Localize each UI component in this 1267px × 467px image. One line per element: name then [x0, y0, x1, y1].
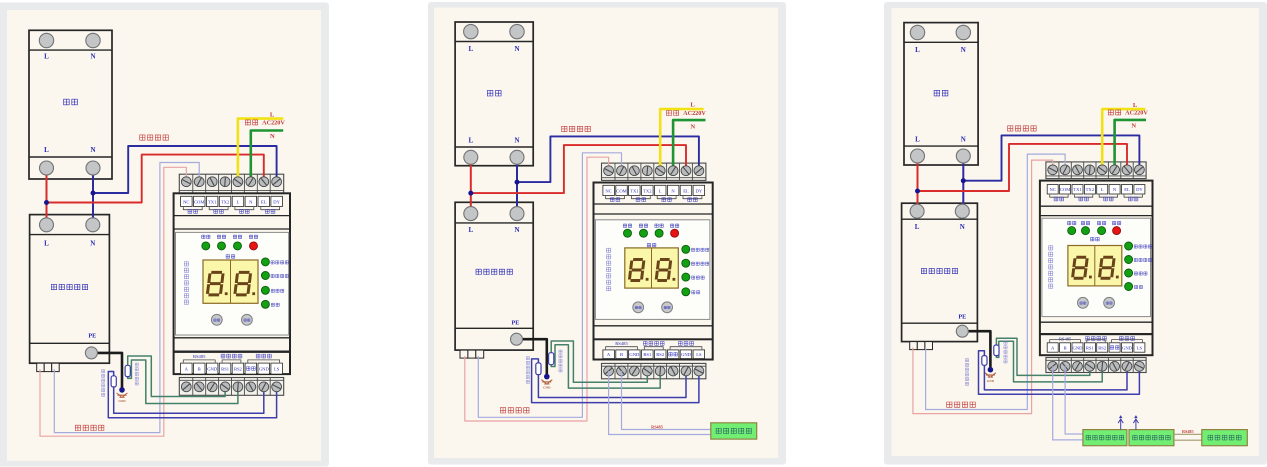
- P3 breaker label 空开: [934, 90, 948, 96]
- P1 strike counter wire to JS2 screw: [128, 360, 238, 404]
- P3 junction dot on L wire: [915, 189, 920, 194]
- svg-text:N: N: [514, 45, 519, 53]
- svg-text:EL: EL: [683, 188, 689, 193]
- svg-text:L: L: [468, 226, 473, 234]
- P2 breaker-monitor wire blue 空开监测: [517, 136, 699, 182]
- svg-text:RS485: RS485: [1182, 429, 1194, 434]
- svg-text:B: B: [1064, 345, 1067, 350]
- P3 right LEDs with labels 雷击次数 雷电流KA 极性一 温度: [1125, 242, 1133, 250]
- svg-text:B: B: [620, 352, 623, 357]
- P1 monitor bottom pin labels A B GND JS1 JS2 屏蔽 GND LS: [181, 363, 193, 374]
- P2 surge label 浪涌保护器: [476, 269, 512, 274]
- svg-text:L: L: [270, 111, 275, 118]
- P3 label 通信监测: [947, 402, 976, 407]
- P2 surge mounting feet: [460, 350, 468, 358]
- P2 station box 智能监测站: [711, 423, 757, 439]
- P2 lightning current sensor wire to LS screw: [538, 371, 686, 398]
- P3 monitor front panel: [1042, 218, 1151, 316]
- P2 label 空开监测: [562, 126, 591, 131]
- P3 monitor din-rail band: [1040, 205, 1153, 207]
- P2 wire L phase breaker to surge (red): [470, 157, 472, 213]
- svg-text:RS2: RS2: [1098, 345, 1107, 350]
- P1 display digit 8 right: [235, 272, 251, 295]
- P3 RS485 wire A to wireless module: [1053, 366, 1083, 440]
- P3 status LED labels 电源 温度 空开 故障: [1068, 221, 1076, 224]
- P1 monitor bottom terminal strip: [179, 378, 283, 396]
- P3 monitor device body: [1040, 181, 1153, 356]
- P1 monitor front panel: [176, 232, 289, 335]
- svg-text:L: L: [690, 102, 695, 109]
- P2 PE earth wire (black): [517, 339, 547, 376]
- P1 PE junction dot: [119, 387, 125, 393]
- P2 display caption 显示: [647, 243, 656, 247]
- P3 lightning strike sensor 雷击传感器: [994, 345, 999, 356]
- P3 surge mounting feet: [910, 342, 918, 350]
- P2 monitor front panel: [595, 220, 710, 320]
- P1 monitor top group labels 通信 温度 电源 空开: [188, 210, 198, 214]
- P2 RS485 wire B to station: [622, 371, 711, 430]
- P3 label 空开监测: [1008, 126, 1037, 131]
- P2 display digit 8 left: [629, 260, 644, 281]
- P2 PE junction dot: [544, 374, 550, 380]
- svg-text:RS1: RS1: [221, 367, 230, 372]
- svg-text:B: B: [198, 367, 201, 372]
- P1 right LEDs with labels 雷击次数 雷电流KA 极性一 温度: [261, 258, 269, 266]
- svg-text:L: L: [44, 53, 49, 61]
- P1 lightning current sensor wire to GND screw: [108, 372, 276, 418]
- P3 monitor top terminal strip: [1046, 162, 1146, 179]
- P2 vertical label 雷击传感器: [559, 350, 562, 372]
- svg-text:EL: EL: [1124, 187, 1130, 192]
- P2 breaker label 空开: [487, 90, 501, 96]
- P1 monitor din-rail band: [174, 215, 290, 217]
- svg-text:L: L: [468, 137, 473, 145]
- P2 lower thick divider: [594, 338, 713, 340]
- P1 lightning current sensor wire to LS screw: [114, 387, 264, 413]
- P1 monitor top terminal screws: [181, 177, 191, 187]
- P3 left vertical label 智能防雷监测仪: [1049, 246, 1053, 289]
- P3 lightning current sensor wire to LS screw: [984, 365, 1127, 390]
- P3 lower band line: [1040, 321, 1153, 323]
- P3 vertical label 雷电流传感器: [965, 359, 968, 386]
- P3 monitor top group labels 通信 温度 电源 空开: [1054, 197, 1064, 201]
- P3 antenna 1: [1120, 420, 1122, 430]
- P2 strike counter wire to JS2 screw: [551, 345, 660, 388]
- svg-text:AC220V: AC220V: [1125, 110, 1148, 117]
- svg-text:GND: GND: [259, 367, 270, 372]
- P1 communication monitor wire light red 通信监测: [40, 167, 186, 436]
- P3 breaker top terminals: [910, 25, 924, 39]
- P1 wire L phase breaker to surge (red): [46, 168, 48, 225]
- P1 display digit 8 left: [207, 272, 223, 295]
- svg-text:EL: EL: [261, 199, 267, 204]
- P2 communication monitor wire light blue 通信监测: [478, 153, 621, 418]
- svg-text:LS: LS: [696, 352, 702, 357]
- svg-text:RS2: RS2: [234, 367, 243, 372]
- svg-text:N: N: [960, 223, 965, 231]
- P2 isolated AC220V live wire (yellow): [660, 109, 703, 171]
- P1 lower band line: [174, 337, 290, 339]
- P3 breaker-monitor wire blue 空开监测: [963, 135, 1139, 180]
- P3 link wires module to station: [1174, 433, 1202, 435]
- svg-text:TX1: TX1: [1073, 187, 1082, 192]
- svg-text:L: L: [659, 188, 662, 193]
- P2 ground symbol: [541, 380, 552, 384]
- P3 monitor top pin labels NC COM TX1 TX2 L N EL DY: [1047, 185, 1058, 195]
- svg-text:L: L: [915, 135, 920, 143]
- P1 communication monitor wire light blue 通信监测: [54, 163, 199, 433]
- svg-text:N: N: [1131, 123, 1136, 130]
- P2 junction dot on L wire: [468, 191, 473, 196]
- svg-text:L: L: [44, 239, 49, 247]
- svg-text:N: N: [270, 133, 275, 140]
- P3 monitor bottom pin labels A B GND JS1 JS2 屏蔽 GND LS: [1047, 343, 1058, 352]
- svg-text:DY: DY: [696, 188, 703, 193]
- P3 breaker bottom terminals: [911, 149, 925, 163]
- P3 display caption 显示: [1091, 237, 1100, 241]
- svg-text:TX1: TX1: [630, 188, 639, 193]
- svg-text:RS485: RS485: [615, 341, 628, 346]
- P3 display digit 8 left: [1073, 257, 1088, 278]
- svg-text:L: L: [468, 45, 473, 53]
- P2 monitor top terminal strip: [602, 163, 706, 180]
- P2 monitor din-rail band: [594, 203, 713, 205]
- svg-text:TX2: TX2: [1086, 187, 1095, 192]
- svg-text:RS1: RS1: [643, 352, 652, 357]
- P1 seven-segment display window: [203, 260, 258, 303]
- P2 label 通信监测: [500, 408, 529, 413]
- P1 buttons 设置 复位: [211, 314, 222, 325]
- svg-text:NC: NC: [1050, 187, 1056, 192]
- P3 PE junction dot: [988, 367, 994, 373]
- P3 surge PE terminal: [956, 325, 968, 337]
- P2 breaker-monitor wire red 空开监测: [471, 145, 686, 193]
- P2 surge protector box 浪涌保护器: [455, 202, 533, 350]
- P2 monitor top group brackets: [606, 196, 625, 199]
- P2 communication monitor wire light red 通信监测: [465, 157, 609, 421]
- P3 RS485 wire B to wireless module: [1065, 366, 1083, 434]
- P2 seven-segment display window: [625, 248, 679, 288]
- svg-text:GND: GND: [118, 399, 126, 403]
- P3 surge top terminals: [910, 204, 924, 218]
- P2 card background: [428, 2, 786, 465]
- P3 monitor bottom group brackets: [1050, 340, 1081, 343]
- P1 monitor device body: [174, 193, 290, 374]
- svg-text:GND: GND: [207, 367, 218, 372]
- P3 lower thick divider: [1040, 333, 1153, 335]
- P2 lightning strike sensor 雷击传感器: [549, 353, 554, 365]
- svg-text:RS485: RS485: [1059, 336, 1072, 341]
- svg-text:GND: GND: [1122, 345, 1133, 350]
- svg-text:LS: LS: [274, 367, 280, 372]
- P1 wire N breaker to surge (blue): [92, 168, 94, 225]
- P3 surge protector box 浪涌保护器: [902, 203, 978, 341]
- P3 wireless module box 1 无线传输模块: [1083, 430, 1127, 446]
- P1 label 空开监测: [140, 135, 169, 140]
- P1 surge mounting feet: [37, 363, 45, 371]
- svg-text:NC: NC: [183, 199, 189, 204]
- P1 isolated AC220V live wire (yellow): [238, 119, 283, 182]
- P3 wireless module box 2 无线传输模块: [1129, 430, 1174, 446]
- P2 lower band line: [594, 325, 713, 327]
- svg-text:N: N: [90, 53, 95, 61]
- P2 strike counter wire to JS1 screw: [551, 341, 647, 382]
- P2 lightning current sensor 雷电流传感器: [536, 363, 541, 375]
- P2 monitor bottom pin labels A B GND JS1 JS2 屏蔽 GND LS: [603, 350, 615, 359]
- P1 lightning current sensor 雷电流传感器: [111, 376, 116, 387]
- P2 lightning current sensor wire to GND screw: [532, 359, 699, 403]
- P2 monitor bottom group brackets: [606, 347, 638, 350]
- svg-text:RS485: RS485: [651, 424, 663, 429]
- P3 breaker-monitor wire red 空开监测: [918, 144, 1128, 191]
- svg-text:L: L: [236, 199, 239, 204]
- P2 left vertical label 智能防雷监测仪: [607, 248, 611, 291]
- P1 status LED labels 电源 温度 空开 故障: [202, 235, 210, 238]
- svg-text:N: N: [961, 46, 966, 54]
- P2 monitor device body: [594, 183, 713, 360]
- P3 status LEDs green green green red: [1068, 227, 1076, 235]
- P1 surge label 浪涌保护器: [51, 284, 87, 289]
- svg-text:GND: GND: [543, 386, 551, 390]
- svg-text:DY: DY: [1136, 187, 1143, 192]
- P3 monitor bottom terminal screws: [1048, 361, 1058, 371]
- P2 vertical label 雷电流传感器: [526, 357, 529, 384]
- svg-text:N: N: [691, 123, 696, 130]
- P3 card background: [884, 2, 1267, 465]
- P3 buttons 设置 复位: [1078, 297, 1089, 308]
- P1 monitor top terminal strip: [179, 174, 283, 193]
- P3 station box 智能监测站: [1202, 430, 1248, 446]
- svg-text:TX1: TX1: [208, 199, 217, 204]
- svg-text:COM: COM: [1060, 187, 1070, 192]
- P1 lightning strike sensor 雷击传感器: [125, 365, 130, 376]
- P1 surge protector box 浪涌保护器: [30, 215, 110, 364]
- svg-text:N: N: [514, 137, 519, 145]
- svg-text:PE: PE: [958, 313, 966, 320]
- P2 monitor bottom terminal strip: [602, 363, 706, 378]
- P3 lightning current sensor wire to GND screw: [979, 351, 1140, 395]
- P1 surge PE terminal: [85, 347, 97, 359]
- svg-text:GND: GND: [1073, 345, 1084, 350]
- P1 card background: [0, 3, 329, 467]
- P1 strike counter wire to JS1 screw: [128, 356, 225, 397]
- P3 antenna 2: [1135, 420, 1137, 430]
- P2 monitor bottom terminal screws: [604, 366, 614, 376]
- P2 surge top terminals: [464, 207, 478, 221]
- svg-text:N: N: [90, 146, 95, 154]
- svg-text:AC220V: AC220V: [262, 120, 285, 127]
- svg-text:LS: LS: [1137, 345, 1143, 350]
- svg-text:GND: GND: [629, 352, 640, 357]
- P1 ground symbol: [117, 393, 128, 397]
- P3 monitor top group brackets: [1050, 195, 1068, 198]
- P1 label 通信监测: [75, 425, 104, 430]
- P2 breaker top terminals: [464, 24, 478, 38]
- P3 seven-segment display window: [1068, 246, 1122, 286]
- P3 isolated AC220V neutral wire (green): [1115, 120, 1146, 170]
- svg-text:RS485: RS485: [193, 354, 206, 359]
- P3 wire L phase breaker to surge (red): [917, 156, 919, 211]
- P3 PE earth wire (black): [962, 331, 990, 370]
- P1 vertical label 雷电流传感器: [102, 370, 105, 397]
- P1 breaker bottom terminals: [40, 161, 54, 175]
- P1 monitor bottom group brackets: [183, 360, 215, 363]
- P2 surge PE terminal: [511, 333, 523, 345]
- P1 vertical label 雷击传感器: [135, 363, 138, 385]
- P2 breaker bottom terminals: [464, 150, 478, 164]
- P1 label 隔离AC220V: [245, 120, 257, 125]
- svg-text:L: L: [1133, 102, 1138, 109]
- P3 surge label 浪涌保护器: [921, 268, 957, 273]
- P3 isolated AC220V live wire (yellow): [1102, 109, 1145, 170]
- P1 monitor bottom terminal screws: [181, 382, 191, 392]
- P1 circuit breaker box 空开: [29, 30, 112, 179]
- svg-text:N: N: [90, 239, 95, 247]
- svg-text:GND: GND: [987, 379, 995, 383]
- svg-text:PE: PE: [88, 332, 96, 339]
- svg-text:N: N: [514, 226, 519, 234]
- P2 right LEDs with labels 雷击次数 雷电流KA 极性一 温度: [682, 245, 690, 253]
- svg-text:COM: COM: [616, 188, 626, 193]
- P2 RS485 wire A to station: [609, 371, 711, 435]
- P1 display caption 显示: [226, 255, 235, 259]
- P2 wire N breaker to surge (blue): [516, 157, 518, 213]
- P1 breaker-monitor wire red 空开监测: [47, 155, 264, 203]
- P3 ground symbol: [985, 373, 996, 377]
- P1 junction dot on N wire: [91, 191, 96, 196]
- svg-text:L: L: [915, 46, 920, 54]
- P1 breaker label 空开: [64, 99, 78, 105]
- P1 lower thick divider: [174, 351, 290, 353]
- P2 display digit 8 right: [656, 260, 671, 281]
- P2 status LED labels 电源 温度 空开 故障: [623, 224, 631, 227]
- P3 display digit 8 right: [1099, 257, 1114, 278]
- P2 junction dot on N wire: [515, 180, 520, 185]
- P3 communication monitor wire light blue 通信监测: [926, 154, 1066, 409]
- svg-text:N: N: [961, 135, 966, 143]
- P3 monitor bottom terminal strip: [1046, 358, 1146, 373]
- P2 status LEDs green green green red: [624, 229, 632, 237]
- P1 left vertical label 智能防雷监测仪: [184, 262, 188, 305]
- svg-text:NC: NC: [605, 188, 611, 193]
- svg-text:RS2: RS2: [656, 352, 665, 357]
- P3 junction dot on N wire: [961, 178, 966, 183]
- P1 breaker top terminals: [39, 33, 53, 47]
- svg-text:TX2: TX2: [643, 188, 652, 193]
- P1 monitor top pin labels NC COM TX1 TX2 L N EL DY: [181, 196, 193, 206]
- P2 monitor top group labels 通信 温度 电源 空开: [610, 198, 620, 202]
- P2 label 隔离AC220V: [666, 111, 678, 116]
- svg-text:L: L: [44, 146, 49, 154]
- P3 strike counter wire to JS1 screw: [996, 338, 1089, 375]
- P2 circuit breaker box 空开: [455, 22, 533, 166]
- P3 vertical label 雷击传感器: [1004, 341, 1007, 363]
- svg-text:L: L: [915, 223, 920, 231]
- P1 PE earth wire (black): [91, 353, 122, 390]
- P3 communication monitor wire light red 通信监测: [913, 160, 1053, 414]
- svg-text:GND: GND: [681, 352, 692, 357]
- svg-text:AC220V: AC220V: [683, 110, 706, 117]
- P3 circuit breaker box 空开: [904, 23, 978, 165]
- svg-text:PE: PE: [511, 319, 519, 326]
- P1 status LEDs green green green red: [202, 242, 210, 250]
- P3 lightning current sensor 雷电流传感器: [982, 356, 987, 366]
- P2 monitor top terminal screws: [604, 166, 614, 176]
- P3 wire N breaker to surge (blue): [962, 156, 964, 211]
- svg-text:L: L: [1101, 187, 1104, 192]
- P3 strike counter wire to JS2 screw: [996, 341, 1102, 382]
- P3 monitor top terminal screws: [1048, 165, 1058, 175]
- P1 junction dot on L wire: [44, 200, 49, 205]
- P2 buttons 设置 复位: [633, 302, 644, 313]
- P3 label 隔离AC220V: [1108, 110, 1120, 115]
- P1 surge top terminals: [40, 218, 54, 232]
- P1 isolated AC220V neutral wire (green): [251, 131, 283, 182]
- svg-text:COM: COM: [194, 199, 204, 204]
- P2 isolated AC220V neutral wire (green): [673, 120, 705, 171]
- svg-text:DY: DY: [273, 199, 280, 204]
- P1 breaker-monitor wire blue 空开监测: [93, 146, 277, 193]
- P1 monitor top group brackets: [183, 207, 202, 210]
- svg-text:TX2: TX2: [221, 199, 230, 204]
- svg-text:RS1: RS1: [1086, 345, 1095, 350]
- P2 monitor top pin labels NC COM TX1 TX2 L N EL DY: [603, 185, 615, 195]
